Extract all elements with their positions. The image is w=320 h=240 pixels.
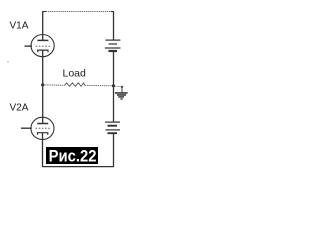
svg-text:V2A: V2A: [10, 103, 29, 114]
svg-text:Load: Load: [63, 68, 87, 80]
svg-text:Рис.22: Рис.22: [49, 148, 97, 166]
svg-text:V1A: V1A: [10, 21, 29, 32]
